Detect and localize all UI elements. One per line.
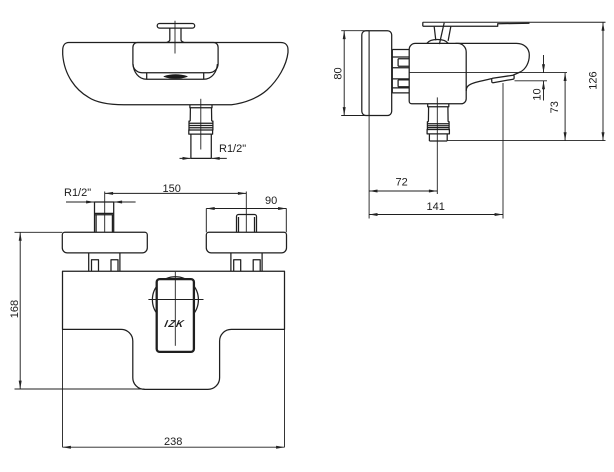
- front view: left wall bracket: [62, 232, 147, 253]
- front view: right pipe centerline: [245, 192, 247, 233]
- front view: left bracket neck: [89, 253, 120, 271]
- top view: housing lower skirt: [133, 64, 217, 79]
- svg-text:IZK: IZK: [163, 319, 185, 330]
- dimension 80 line: [343, 31, 345, 116]
- front view: right neck tab A: [234, 260, 241, 272]
- dimension 126 line: [602, 22, 604, 140]
- arrow 73 bottom: [564, 132, 567, 140]
- side view: spout outline: [456, 43, 530, 91]
- svg-text:150: 150: [163, 183, 181, 195]
- svg-text:168: 168: [9, 300, 21, 318]
- side view: aerator piece: [492, 75, 514, 83]
- arrow 150 left: [105, 192, 113, 195]
- side view: lever bar top edge + 126 extension line: [423, 21, 606, 23]
- arrow 72 right: [429, 190, 437, 193]
- front view: handle horizontal centerline: [148, 299, 203, 301]
- svg-text:90: 90: [265, 195, 277, 207]
- dimension 150 line: [105, 192, 247, 194]
- arrow 72 left: [369, 190, 377, 193]
- side view: bottom connector barrel: [428, 107, 448, 122]
- side view: bottom connector ring: [427, 130, 449, 134]
- dimension 90 extension lines: [206, 209, 286, 233]
- front view: cartridge circle: [152, 277, 198, 323]
- arrow 168 bottom: [19, 381, 22, 389]
- svg-text:73: 73: [549, 101, 561, 113]
- arrow 141 right: [495, 213, 503, 216]
- top view: outlet connector flange: [190, 105, 212, 108]
- front view: left neck tab A: [92, 260, 99, 272]
- side view: body seam line + 10/73 extension: [409, 72, 567, 74]
- side view: union block outline: [392, 50, 409, 93]
- side view: bottom connector centerline: [436, 97, 438, 194]
- arrow 90 right: [278, 207, 286, 210]
- side view: connector bottom extension line (73/126): [447, 140, 606, 142]
- dimension 90 line: [206, 208, 286, 210]
- side view: lower union nut: [392, 79, 409, 88]
- side view: wall plate: [362, 31, 392, 116]
- svg-text:R1/2": R1/2": [219, 143, 246, 155]
- svg-text:141: 141: [427, 201, 445, 213]
- svg-text:72: 72: [396, 177, 408, 189]
- dimension 10 line lower tail: [543, 81, 545, 101]
- front view: left pipe threaded: [95, 202, 114, 232]
- side view: spout outlet extension line down (141): [502, 83, 504, 219]
- arrow 73 top: [564, 73, 567, 81]
- top view: skirt tick right: [203, 73, 205, 79]
- front view: body right edge extension down (238): [284, 329, 286, 447]
- top view: outlet connector bottom edge: [191, 157, 211, 159]
- front view: left neck tab B: [111, 260, 118, 272]
- dimension R1/2 top view line: [180, 157, 227, 159]
- dimension 72 line: [369, 190, 437, 192]
- top view: handle centerline: [174, 21, 176, 54]
- arrow 141 left: [369, 213, 377, 216]
- arrow R1/2 top view left: [183, 157, 191, 160]
- svg-text:80: 80: [333, 67, 345, 79]
- side view: aerator bottom extension line: [515, 80, 548, 82]
- arrow R1/2 front right: [114, 201, 122, 204]
- top view: outlet connector barrel: [190, 108, 212, 121]
- front view: notch bottom extension line (168): [15, 388, 145, 390]
- dimension 238 line: [63, 446, 285, 448]
- side view: bottom connector shaft: [429, 134, 447, 141]
- front view: handle vertical centerline: [174, 272, 176, 346]
- front view: right wall bracket: [206, 232, 286, 253]
- arrow R1/2 top view right: [211, 157, 219, 160]
- dimension texts: [9, 67, 600, 448]
- arrow 80 top: [343, 31, 346, 39]
- top view: handle T-bar: [157, 24, 195, 29]
- arrow 10 down: [542, 64, 545, 72]
- dimension 73 line: [564, 73, 566, 141]
- svg-text:238: 238: [164, 436, 182, 448]
- side view: upper union nut: [392, 57, 409, 68]
- dimension R1/2 front view line: [66, 201, 136, 203]
- side view: wall plane extension line down: [368, 116, 370, 219]
- front view: body stepped outline: [63, 271, 285, 389]
- side view: lever bar: [423, 22, 530, 26]
- arrow 238 left: [63, 446, 71, 449]
- dimension 141 line: [369, 214, 503, 216]
- front view: right neck tab B: [253, 260, 260, 272]
- arrow 238 right: [276, 446, 284, 449]
- arrow 126 top: [602, 22, 605, 30]
- side view: lever neck lines: [434, 23, 451, 44]
- dimension 168 line: [19, 232, 21, 389]
- arrow 168 top: [19, 232, 22, 240]
- dimension 10 line upper tail: [543, 55, 545, 73]
- top view: outlet slot dark lens: [164, 75, 187, 79]
- dimension 80 extension ticks: [341, 31, 369, 116]
- top view: outlet connector ring: [189, 130, 213, 134]
- front view: right pipe: [237, 215, 257, 233]
- top view: outlet connector centerline: [200, 99, 202, 150]
- svg-text:R1/2": R1/2": [64, 187, 91, 199]
- front view: left pipe centerline: [104, 192, 106, 233]
- top view: outlet connector shaft: [191, 134, 211, 158]
- arrow R1/2 front left: [86, 201, 94, 204]
- side view: dome on body top: [427, 40, 448, 44]
- side view: bottom connector flange: [428, 104, 449, 107]
- arrow 10 up: [542, 81, 545, 89]
- arrow 80 bottom: [343, 107, 346, 115]
- arrow 90 left: [206, 207, 214, 210]
- top view: outlet connector ribs: [189, 121, 213, 130]
- side view: body rounded rect: [409, 43, 466, 103]
- top view: handle stem: [167, 28, 184, 42]
- side view: bottom connector ribs: [427, 122, 449, 130]
- arrow 126 bottom: [602, 132, 605, 140]
- front view: bracket top extension line (168): [15, 231, 63, 233]
- arrow 150 right: [238, 192, 246, 195]
- svg-text:126: 126: [588, 71, 600, 89]
- front view: right bracket neck: [231, 253, 262, 271]
- front view: handle plate bold rect: [157, 279, 194, 352]
- svg-text:10: 10: [532, 88, 544, 100]
- top view: cartridge housing rounded rect: [133, 43, 218, 73]
- top view: skirt tick left: [146, 73, 148, 79]
- front view: body left edge extension down (238): [62, 329, 64, 447]
- top view: faucet body outline: [63, 43, 288, 105]
- side view: wall plane line through plate: [368, 31, 370, 116]
